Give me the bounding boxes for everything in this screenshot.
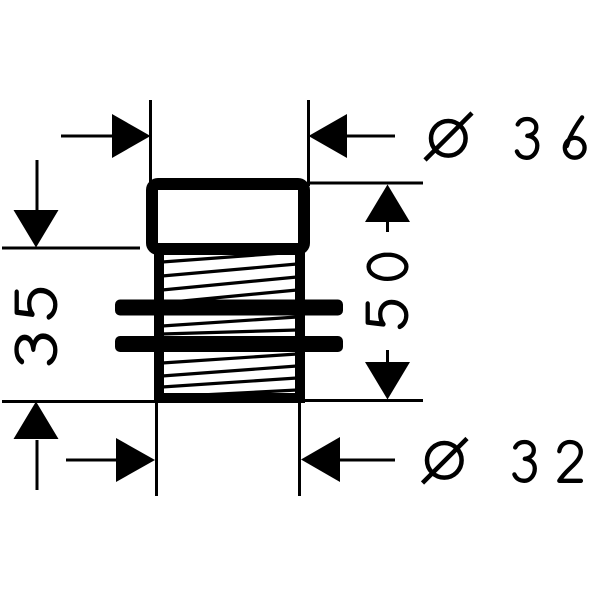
tab 1: [115, 300, 343, 316]
dim 50: text 50 rotated: [368, 302, 407, 326]
dim 50: lower stub: [386, 350, 389, 362]
dim Ø36: left tail: [61, 135, 114, 138]
dim 35: bottom horizontal line: [2, 400, 155, 403]
tab 2: [115, 336, 343, 352]
dim 35: top overshoot line: [36, 160, 39, 212]
thread hatch lines section A: [162, 252, 297, 303]
dim Ø36: left extension line: [149, 100, 152, 184]
dim Ø32: right tail: [338, 459, 395, 462]
threaded body outline (left, bottom, right edges): [159, 249, 300, 398]
dim 35: top horizontal line: [2, 247, 140, 250]
dim 35: up arrow: [14, 402, 59, 440]
dim 35: down arrow: [14, 210, 59, 248]
dim Ø36: right arrow: [309, 114, 348, 158]
top cap: [152, 184, 304, 249]
dim Ø36: diameter symbol: [425, 113, 472, 160]
dim 35: text 35 rotated: [17, 336, 56, 363]
thread hatch lines section C: [162, 354, 297, 397]
dim Ø32: diameter symbol: [423, 439, 468, 484]
dim Ø36: right tail: [345, 135, 395, 138]
dim Ø32: right extension line: [298, 402, 301, 496]
dim Ø36: text 36: [517, 119, 537, 158]
dim Ø32: left tail: [66, 459, 118, 462]
dim 50: bottom extension line: [304, 399, 423, 402]
dim Ø32: text 32: [514, 442, 534, 481]
dim 50: upper stub: [386, 220, 389, 232]
dim 50: top extension line: [309, 182, 423, 185]
dim 50: down arrow: [365, 362, 410, 400]
dim Ø32: left extension line: [155, 403, 158, 496]
dim 35: bottom overshoot line: [36, 440, 39, 490]
dim Ø36: left arrow: [112, 114, 151, 158]
dim 50: up arrow: [365, 185, 410, 223]
dim Ø36: right extension line: [307, 100, 310, 186]
dim Ø32: left arrow: [116, 438, 155, 482]
dim Ø32: right arrow: [301, 437, 340, 482]
thread hatch lines section B: [162, 317, 297, 334]
